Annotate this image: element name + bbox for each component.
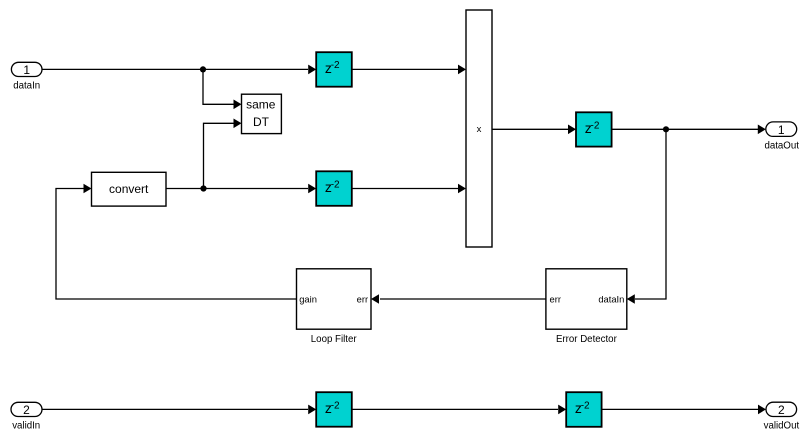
svg-text:Error Detector: Error Detector [556,334,618,345]
svg-text:1: 1 [778,123,785,137]
svg-text:dataIn: dataIn [13,80,40,91]
svg-text:same: same [246,97,276,111]
svg-text:dataIn: dataIn [598,293,624,304]
svg-text:-2: -2 [581,400,590,411]
svg-text:1: 1 [23,63,30,77]
svg-text:dataOut: dataOut [764,140,799,151]
svg-text:validIn: validIn [12,420,40,431]
svg-text:-2: -2 [591,120,600,131]
svg-text:-2: -2 [331,400,340,411]
svg-text:2: 2 [23,403,30,417]
svg-text:convert: convert [109,182,149,196]
svg-text:gain: gain [299,293,317,304]
svg-text:x: x [477,124,482,135]
svg-text:err: err [357,293,368,304]
svg-text:-2: -2 [331,179,340,190]
svg-text:validOut: validOut [764,420,800,431]
svg-text:2: 2 [778,403,785,417]
svg-text:err: err [550,293,561,304]
svg-text:DT: DT [253,115,270,129]
svg-text:Loop Filter: Loop Filter [311,334,358,345]
svg-text:-2: -2 [331,60,340,71]
